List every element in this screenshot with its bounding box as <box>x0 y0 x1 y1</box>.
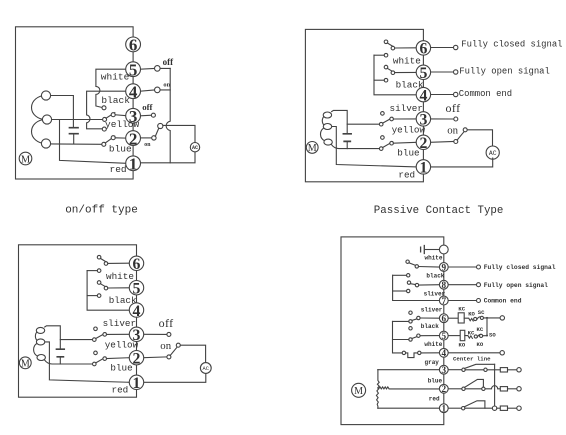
common bus to terminal 7 <box>393 275 440 300</box>
wire winding bottom to terminal 1 <box>378 407 440 409</box>
svg-text:sliver: sliver <box>103 318 136 329</box>
svg-text:Common end: Common end <box>484 298 522 305</box>
wire row 1 to fuse <box>497 407 501 409</box>
motor winding terminal T3 <box>324 139 332 145</box>
svg-text:black: black <box>109 295 137 306</box>
motor winding terminal T2 <box>42 115 51 124</box>
gray wire connector <box>402 351 405 354</box>
yellow cam switch <box>381 112 385 116</box>
svg-text:Common end: Common end <box>459 89 512 99</box>
limit switch for terminal 5 <box>97 281 101 285</box>
actuator enclosure box <box>19 245 137 397</box>
wire T1 winding to capacitor <box>332 110 348 133</box>
left bus to terminal 4 wire <box>393 321 403 353</box>
svg-text:blue: blue <box>110 363 132 374</box>
svg-text:AC: AC <box>192 145 198 151</box>
red wire from T2 to terminal 1 <box>332 127 417 167</box>
svg-text:on/off type: on/off type <box>65 205 138 217</box>
svg-text:on: on <box>163 82 170 89</box>
svg-text:5: 5 <box>442 331 447 341</box>
yellow wire branch <box>60 339 92 341</box>
svg-text:9: 9 <box>442 262 447 272</box>
terminal 1 <box>416 160 430 174</box>
actuator enclosure box <box>341 237 444 425</box>
common bus to terminal 4 <box>374 55 416 95</box>
svg-text:3: 3 <box>442 365 447 375</box>
AC hot wire <box>180 345 205 362</box>
svg-text:4: 4 <box>442 348 447 358</box>
svg-text:on: on <box>447 125 458 137</box>
output terminal row 4 <box>500 351 504 355</box>
cam switch for terminal 6 <box>409 311 412 314</box>
svg-text:KO: KO <box>459 341 466 348</box>
terminal 2 on switch to AC <box>144 356 167 359</box>
terminal 3 <box>129 327 143 341</box>
output terminal row 6 <box>500 316 504 320</box>
capacitor C <box>343 134 351 142</box>
svg-text:on: on <box>144 142 151 148</box>
motor winding arcs <box>32 96 46 144</box>
terminal 6 <box>129 256 143 270</box>
svg-text:KC: KC <box>458 306 465 313</box>
wire terminal 4 to center line terminal <box>448 352 500 354</box>
motor winding terminal T1 <box>323 112 331 118</box>
control bus with hop <box>166 68 170 162</box>
svg-text:M: M <box>21 358 30 369</box>
capacitor symbol at top terminal <box>425 249 439 251</box>
limit switch for terminal 6 <box>97 255 101 259</box>
output terminal row 2 <box>517 387 521 391</box>
AC source <box>190 143 199 152</box>
svg-text:1: 1 <box>129 155 138 174</box>
svg-text:SO: SO <box>489 332 496 339</box>
output terminal row 1 <box>517 406 521 410</box>
terminal 4 <box>416 87 430 101</box>
signal contact terminal 5 <box>431 71 453 73</box>
svg-text:AC: AC <box>203 366 209 372</box>
svg-text:M: M <box>354 386 363 397</box>
svg-text:Fully open signal: Fully open signal <box>484 282 548 289</box>
motor winding coil <box>376 370 379 409</box>
svg-text:red: red <box>110 164 127 175</box>
terminal 2 <box>416 135 430 149</box>
wire T1 winding to capacitor <box>45 326 61 349</box>
blue wire from T3 <box>45 360 93 364</box>
svg-text:on: on <box>160 340 171 352</box>
terminal 5 <box>416 65 430 79</box>
svg-text:red: red <box>398 169 415 180</box>
AC return wire to terminal 1 <box>140 152 195 163</box>
terminal 9 <box>439 263 448 272</box>
common contact below switch 8 <box>407 289 410 292</box>
AC source <box>200 363 211 374</box>
signal contact terminal 7 <box>448 300 476 302</box>
terminal 6 <box>126 37 141 52</box>
relay contact KO row 6 <box>464 318 473 321</box>
svg-text:2: 2 <box>442 384 447 394</box>
motor M <box>352 383 366 397</box>
svg-text:off: off <box>446 101 461 115</box>
yellow cam switch <box>94 327 98 331</box>
terminal 5 off contact <box>141 67 171 70</box>
svg-text:SC: SC <box>478 309 485 316</box>
svg-text:white: white <box>106 271 134 282</box>
red wire from T2 junction to terminal 1 <box>60 120 126 164</box>
svg-text:red: red <box>112 385 129 396</box>
capacitor C1 <box>70 128 79 134</box>
selector switch row 2 <box>448 388 462 390</box>
limit switch for terminal 5 <box>384 65 388 69</box>
svg-text:AC: AC <box>489 150 497 157</box>
fuse row 1 <box>500 406 507 410</box>
fuse row 2 <box>500 387 507 391</box>
blue cam switch <box>381 136 385 140</box>
terminal 5 <box>129 281 143 295</box>
limit switch for terminal 9 <box>406 260 409 263</box>
white throw contact <box>102 106 106 110</box>
red wire from T2 to terminal 1 <box>45 342 130 382</box>
svg-text:1: 1 <box>419 160 427 177</box>
terminal 4 <box>126 84 141 99</box>
yellow cam switch <box>103 117 107 121</box>
svg-text:red: red <box>429 396 440 403</box>
white wire from terminal 5 with hop over black wire <box>96 69 126 107</box>
terminal 4 on contact <box>141 90 171 91</box>
output terminal row 3 <box>517 368 521 372</box>
svg-text:KO: KO <box>477 341 484 348</box>
svg-text:M: M <box>308 143 317 154</box>
motor winding terminal T1 <box>36 327 44 333</box>
terminal 2 <box>439 384 448 393</box>
terminal 3 off contact <box>141 114 152 117</box>
svg-text:off: off <box>142 102 153 112</box>
svg-text:Passive Contact Type: Passive Contact Type <box>374 205 504 217</box>
svg-text:6: 6 <box>442 314 447 324</box>
link wire rows 6-5 <box>486 318 488 336</box>
svg-text:blue: blue <box>428 378 443 385</box>
svg-text:black: black <box>426 273 444 280</box>
svg-text:blue: blue <box>397 147 419 158</box>
selector switch row 3 <box>448 369 462 371</box>
top terminal <box>439 245 448 254</box>
black wire from terminal 4 with hop over yellow wire <box>87 91 126 129</box>
svg-text:black: black <box>396 80 424 91</box>
svg-text:white: white <box>424 341 442 348</box>
svg-text:black: black <box>101 95 130 106</box>
svg-text:4: 4 <box>129 83 138 102</box>
svg-text:yellow: yellow <box>105 119 140 130</box>
wire winding top to terminal 3 <box>378 369 440 371</box>
AC return wire to terminal 1 <box>144 374 206 383</box>
terminal 3 off contact <box>144 333 167 335</box>
signal contact terminal 8 <box>448 284 476 286</box>
svg-text:Fully closed signal: Fully closed signal <box>461 40 562 50</box>
vertical link row3 to row1 <box>494 364 496 406</box>
terminal 6 <box>416 41 430 55</box>
wire row 6 to output terminal <box>484 317 501 319</box>
motor M <box>19 152 32 165</box>
motor winding arcs <box>34 332 38 357</box>
terminal 2 on switch to AC <box>430 141 453 144</box>
svg-text:1: 1 <box>442 404 447 414</box>
svg-text:8: 8 <box>442 280 447 290</box>
svg-text:off: off <box>159 316 174 330</box>
svg-text:white: white <box>393 55 421 66</box>
limit switch for terminal 8 <box>407 281 410 284</box>
terminal 5 <box>439 331 448 340</box>
svg-text:Fully closed signal: Fully closed signal <box>484 264 556 271</box>
terminal 3 off contact <box>430 118 453 120</box>
limit switch for terminal 6 <box>384 40 388 44</box>
terminal 1 <box>439 404 448 413</box>
svg-text:6: 6 <box>129 36 138 55</box>
wire capacitor bottom to blue wire <box>346 142 348 148</box>
common contact below switch 5 <box>97 294 101 298</box>
signal contact terminal 6 <box>431 47 453 49</box>
svg-text:Center line: Center line <box>453 355 491 362</box>
common bus to terminal 4 <box>87 271 129 311</box>
motor M <box>19 357 31 369</box>
black throw contact <box>102 127 106 131</box>
motor M <box>306 142 318 154</box>
motor winding terminal T3 <box>41 139 50 148</box>
svg-text:KC: KC <box>468 330 475 337</box>
terminal 2 <box>126 131 141 146</box>
wire row 2 to fuse with hop <box>485 386 500 389</box>
motor winding arcs <box>320 116 324 141</box>
svg-text:2: 2 <box>133 351 141 368</box>
terminal 4 <box>439 348 448 357</box>
terminal 8 <box>439 280 448 289</box>
svg-text:yellow: yellow <box>392 124 426 135</box>
yellow wire from winding T2 <box>52 119 103 121</box>
terminal 6 <box>439 314 448 323</box>
common contact below switch 6 <box>97 269 101 273</box>
actuator enclosure box (on/off type) <box>16 27 134 179</box>
cam switch for terminal 5 <box>409 327 412 330</box>
junction row 1 <box>492 406 496 410</box>
wire capacitor bottom to blue wire <box>73 135 75 144</box>
blue wire from winding T3 <box>51 143 102 145</box>
svg-text:2: 2 <box>419 135 427 152</box>
signal contact terminal 4 <box>431 94 453 96</box>
svg-text:7: 7 <box>442 296 447 306</box>
yellow wire branch <box>347 123 379 125</box>
terminal 2 on switch to AC <box>141 137 152 139</box>
blue cam switch <box>102 142 106 146</box>
motor winding terminal T1 <box>41 91 50 100</box>
motor winding terminal T2 <box>323 124 331 130</box>
terminal 5 <box>126 62 141 77</box>
svg-text:gray: gray <box>425 359 440 366</box>
svg-text:off: off <box>163 57 174 67</box>
terminal 7 <box>439 296 448 305</box>
signal contact terminal 9 <box>448 266 476 268</box>
motor winding terminal T3 <box>37 355 45 361</box>
terminal 3 <box>439 365 448 374</box>
terminal 2 <box>129 351 143 365</box>
svg-text:M: M <box>21 154 31 165</box>
svg-text:1: 1 <box>133 375 141 392</box>
relay coil KO row 5 <box>448 335 460 337</box>
AC hot wire <box>163 125 195 142</box>
selector switch row 1 <box>448 407 461 409</box>
common contact below switch 5 <box>384 78 388 82</box>
svg-text:white: white <box>425 255 443 262</box>
wire T1 winding to capacitor top <box>51 96 74 127</box>
svg-text:silver: silver <box>390 103 423 114</box>
motor winding terminal T2 <box>36 339 44 345</box>
AC hot wire <box>467 130 492 147</box>
AC return wire to terminal 1 <box>430 158 492 167</box>
svg-text:KO: KO <box>468 311 475 318</box>
relay contact KC row 5 <box>465 336 473 339</box>
relay coil KC row 6 <box>448 317 458 319</box>
caption on/off type quadrant1 spacer <box>0 0 1 1</box>
blue wire from T3 <box>331 145 379 149</box>
svg-text:Fully open signal: Fully open signal <box>459 67 550 77</box>
capacitor C <box>57 349 65 357</box>
wire capacitor bottom to blue wire <box>59 358 61 364</box>
svg-text:KC: KC <box>477 326 484 333</box>
common contact below switch 9 <box>407 274 410 277</box>
terminal 3 <box>416 112 430 126</box>
svg-text:5: 5 <box>129 61 138 80</box>
motor winding middle tap <box>379 387 440 389</box>
svg-text:white: white <box>101 71 130 82</box>
terminal 4 <box>129 303 143 317</box>
blue cam switch <box>94 351 98 355</box>
AC source <box>486 146 499 159</box>
actuator enclosure box <box>305 29 423 181</box>
svg-text:blue: blue <box>109 144 132 155</box>
common contact below switch 6 <box>384 53 388 57</box>
svg-text:black: black <box>421 323 439 330</box>
terminal 1 <box>126 156 141 171</box>
terminal 3 <box>126 108 141 123</box>
fuse row 3 <box>500 368 507 372</box>
wire row 3 to fuse <box>487 369 500 371</box>
svg-text:yellow: yellow <box>105 340 139 351</box>
svg-text:sliver: sliver <box>421 307 443 314</box>
terminal 1 <box>129 375 143 389</box>
